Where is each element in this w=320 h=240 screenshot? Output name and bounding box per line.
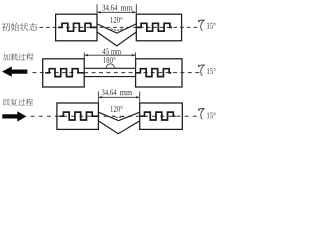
rotation symbol row 2 — [199, 65, 204, 76]
V band top edge row 3 — [98, 112, 139, 120]
dimension extension lines row 1 — [97, 4, 136, 14]
label: hui-fu-guo-cheng "recovery process" — [3, 99, 33, 106]
corrugated spring left row 3 — [59, 112, 98, 120]
rotation symbol row 1 — [199, 20, 204, 31]
rotation symbol row 3 — [199, 109, 204, 120]
angle arc row 1 — [111, 29, 123, 31]
dimension arrows row 3 — [98, 96, 102, 98]
corrugated spring right row 3 — [141, 112, 176, 120]
dimension text 34.64 mm row 1 — [102, 5, 117, 11]
V band top edge row 1 — [97, 24, 136, 33]
angle label 120 deg row 3 — [111, 106, 123, 112]
corrugated spring right row 1 — [137, 23, 172, 31]
V band bottom edge row 3 — [98, 121, 139, 134]
dimension extension lines row 2 — [84, 52, 135, 67]
dimension arrows row 1 — [97, 11, 101, 13]
left grip block row 3 — [57, 103, 99, 129]
left grip block row 1 — [56, 14, 97, 41]
dimension arrows row 2 — [84, 54, 88, 56]
centerline row 2 — [32, 72, 199, 74]
right grip block row 3 — [140, 103, 183, 129]
thick left arrow row 2 — [2, 66, 27, 76]
centerline row 1 — [39, 26, 199, 28]
flattened strip bottom edge row 2 — [84, 76, 135, 78]
label: chu-shi-zhuang-tai "initial state" — [2, 23, 38, 31]
corrugated spring left row 1 — [58, 23, 97, 31]
flattened strip top edge row 2 — [84, 67, 135, 69]
15 deg label row 2 — [207, 68, 216, 74]
angle label 120 deg row 1 — [110, 17, 122, 23]
right grip block row 1 — [136, 14, 181, 41]
label: jia-zai-guo-cheng "loading process" — [3, 53, 34, 60]
thick right arrow row 3 — [2, 111, 26, 121]
dimension extension lines row 3 — [98, 91, 139, 102]
left grip block row 2 — [43, 59, 84, 87]
dimension text 45 mm row 2 — [102, 49, 109, 55]
15 deg label row 3 — [207, 112, 216, 118]
corrugated spring right row 2 — [136, 69, 171, 77]
angle arc row 3 — [113, 116, 125, 117]
V band bottom edge row 1 — [97, 32, 136, 46]
dimension text 34.64 mm row 3 — [102, 89, 117, 95]
centerline row 3 — [31, 115, 200, 117]
corrugated spring left row 2 — [45, 69, 84, 77]
right grip block row 2 — [136, 59, 182, 87]
angle arc row 2 (semicircle) — [106, 64, 114, 68]
15 deg label row 1 — [207, 23, 216, 29]
angle label 180 deg row 2 — [103, 57, 115, 63]
